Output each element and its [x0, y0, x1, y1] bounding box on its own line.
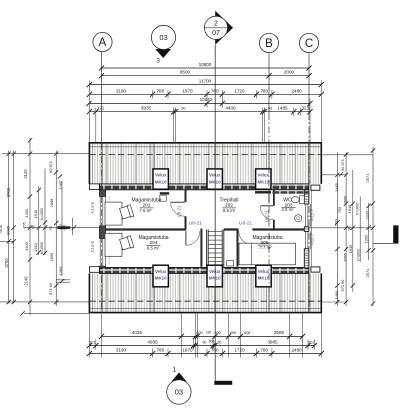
svg-text:455: 455: [22, 222, 27, 229]
grid line A: [101, 52, 103, 143]
svg-text:900: 900: [214, 331, 220, 335]
svg-text:h=1900: h=1900: [40, 242, 44, 254]
stair left rail: [207, 230, 209, 267]
svg-text:90: 90: [268, 105, 273, 110]
svg-text:2146: 2146: [24, 276, 29, 286]
svg-text:3190: 3190: [116, 348, 127, 353]
svg-text:1400: 1400: [24, 208, 29, 217]
bottom dim row A: [102, 335, 303, 337]
svg-text:h=1600: h=1600: [356, 203, 360, 215]
svg-text:10500: 10500: [199, 62, 212, 67]
svg-text:90: 90: [348, 227, 352, 231]
rafter lines top band: [92, 143, 310, 313]
svg-text:9085: 9085: [6, 225, 11, 235]
interior wall H1 (201-204 / mid): [106, 228, 187, 230]
purlin line top band: [89, 146, 321, 148]
section end bar bottom: [214, 381, 232, 385]
svg-text:Velux: Velux: [155, 269, 167, 274]
svg-text:1910: 1910: [348, 244, 353, 253]
svg-text:1200: 1200: [365, 210, 370, 219]
svg-text:780: 780: [260, 348, 268, 353]
WC door arc: [260, 206, 273, 220]
svg-text:1465: 1465: [334, 183, 339, 192]
svg-text:MK10: MK10: [155, 276, 167, 281]
dim row inner walls: [89, 111, 310, 113]
interior wall 201/202 vertical: [185, 190, 187, 229]
left dim verticals: [0, 138, 99, 315]
hall door right leaf+arc: [239, 244, 253, 246]
svg-text:690: 690: [230, 331, 236, 335]
right wall with window: [304, 190, 309, 204]
svg-text:90: 90: [203, 340, 207, 344]
right window A12-7 lower: [304, 231, 310, 248]
svg-text:3700: 3700: [4, 258, 9, 268]
dim row 10042: [89, 102, 310, 104]
svg-text:A14-9: A14-9: [90, 241, 95, 253]
svg-text:2: 2: [214, 21, 218, 28]
velux bottom band 3: [256, 265, 271, 287]
svg-text:1200: 1200: [364, 234, 369, 243]
svg-text:MK10: MK10: [155, 179, 167, 184]
room205 shelf: [227, 261, 234, 266]
left dim ticks: [7, 152, 11, 156]
svg-text:321: 321: [89, 340, 95, 344]
svg-text:1910: 1910: [347, 204, 352, 213]
dim row 10500: [102, 67, 310, 69]
svg-text:7.7 m²: 7.7 m²: [259, 245, 272, 250]
svg-text:780: 780: [156, 88, 164, 93]
svg-text:3985: 3985: [267, 339, 278, 344]
left window A14-9 lower: [99, 239, 105, 267]
door U8-21 room201 leaf: [171, 201, 185, 203]
svg-text:1970: 1970: [182, 88, 193, 93]
right dim verticals: [309, 147, 373, 306]
svg-text:90 971: 90 971: [48, 161, 53, 173]
grid line B: [268, 53, 270, 113]
svg-text:1910: 1910: [33, 209, 38, 218]
svg-text:10042: 10042: [200, 97, 213, 102]
stair treads: [208, 232, 222, 266]
grid line C: [308, 53, 310, 113]
grid bubble A: [93, 32, 112, 51]
svg-text:780: 780: [260, 88, 268, 93]
svg-text:A12-7: A12-7: [309, 209, 314, 221]
svg-text:B: B: [265, 38, 273, 50]
svg-text:1970: 1970: [182, 348, 193, 353]
svg-text:2585: 2585: [274, 330, 285, 335]
svg-text:U8-21: U8-21: [176, 205, 181, 218]
top band border: [89, 143, 321, 184]
left window A14-9 upper: [99, 197, 105, 226]
svg-text:1: 1: [173, 367, 177, 374]
svg-text:3700: 3700: [6, 187, 11, 197]
svg-text:600: 600: [244, 331, 250, 335]
velux top band 2: [207, 169, 222, 189]
room204 right wall: [200, 229, 202, 267]
roof band top (hatched): [89, 143, 321, 184]
svg-text:A: A: [99, 37, 107, 49]
svg-text:3190: 3190: [116, 88, 127, 93]
section line horizontal right + bar: [373, 242, 393, 244]
velux bottom band 1: [153, 265, 168, 287]
svg-text:800: 800: [63, 225, 67, 231]
bed room205: [239, 243, 296, 265]
heavy rafter lines: [102, 143, 309, 313]
dim row 11700: [89, 84, 321, 86]
WC door leaf: [260, 205, 273, 207]
grid bubble B: [259, 33, 278, 52]
knee wall bottom (blocks): [99, 268, 308, 274]
WC wall vertical: [273, 190, 275, 231]
svg-text:Velux: Velux: [258, 269, 270, 274]
svg-text:3: 3: [156, 58, 160, 65]
right dim ticks: [344, 152, 348, 156]
svg-text:1485: 1485: [277, 106, 288, 111]
room205 left wall: [237, 229, 239, 267]
svg-text:A12-7: A12-7: [309, 233, 314, 245]
velux top band 1: [153, 169, 168, 189]
svg-text:8500: 8500: [180, 70, 191, 75]
svg-text:Velux: Velux: [258, 173, 270, 178]
svg-text:h=1600: h=1600: [357, 249, 361, 261]
svg-text:11700: 11700: [199, 79, 212, 84]
svg-text:4935: 4935: [147, 339, 158, 344]
svg-text:1465: 1465: [334, 291, 339, 300]
svg-text:MK10: MK10: [257, 179, 269, 184]
svg-text:900: 900: [209, 340, 215, 344]
svg-text:1720: 1720: [234, 348, 245, 353]
svg-text:h=1800: h=1800: [40, 208, 44, 220]
witness lines bottom: [89, 313, 321, 358]
grid bubble C: [299, 33, 318, 52]
furring dashed line left: [108, 197, 110, 267]
drawing balloon 03 bottom: [172, 372, 187, 381]
svg-text:90: 90: [218, 340, 222, 344]
svg-text:2695: 2695: [49, 253, 54, 262]
dim row 8500/2000: [102, 75, 310, 77]
knee wall top (blocks): [99, 184, 308, 190]
svg-text:2571: 2571: [365, 268, 370, 278]
section marker 2/07 top: [215, 11, 233, 45]
svg-text:321: 321: [97, 106, 105, 111]
eave dashed line top: [89, 154, 321, 156]
svg-text:3935: 3935: [141, 106, 152, 111]
svg-text:500: 500: [334, 218, 339, 225]
svg-text:90 971: 90 971: [340, 159, 345, 171]
right wall outer trim: [311, 190, 313, 268]
svg-text:2665: 2665: [343, 253, 348, 262]
svg-text:A14-9: A14-9: [90, 202, 95, 214]
svg-text:1910: 1910: [33, 242, 38, 251]
svg-text:7.6 m²: 7.6 m²: [139, 208, 152, 213]
left wall with windows: [99, 190, 105, 197]
svg-text:780: 780: [156, 348, 164, 353]
svg-text:971 90: 971 90: [48, 282, 53, 295]
svg-text:4400: 4400: [225, 106, 236, 111]
hall door left arc: [185, 231, 187, 245]
svg-text:780: 780: [211, 88, 219, 93]
right window A12-7 upper: [304, 204, 310, 227]
WC sink: [295, 215, 302, 222]
svg-text:600: 600: [196, 331, 202, 335]
svg-text:2.8 m²: 2.8 m²: [282, 207, 295, 212]
bottom band border: [89, 273, 321, 312]
bed room204: [105, 233, 122, 256]
section line vertical: [214, 45, 216, 143]
svg-text:90: 90: [32, 225, 36, 229]
bed room201: [105, 202, 122, 225]
WC top closet bar: [255, 191, 271, 193]
eave dashed line bottom: [89, 300, 321, 302]
stair right rail: [222, 230, 224, 267]
bottom dim row C: [89, 353, 321, 355]
svg-text:321: 321: [308, 340, 314, 344]
svg-text:03: 03: [159, 33, 167, 42]
svg-text:321: 321: [301, 106, 309, 111]
svg-text:700: 700: [337, 206, 342, 213]
svg-text:971 90: 971 90: [340, 279, 345, 292]
roof corner blocks: [89, 184, 99, 190]
svg-text:C: C: [305, 38, 313, 50]
svg-text:07: 07: [212, 30, 220, 37]
svg-text:1265: 1265: [58, 181, 63, 190]
svg-text:2688: 2688: [49, 199, 54, 208]
svg-text:2146: 2146: [23, 169, 28, 179]
velux bottom band 2: [207, 265, 222, 287]
svg-text:Velux: Velux: [155, 173, 167, 178]
chair room204: [119, 236, 133, 251]
witness lines top: [89, 81, 321, 143]
svg-text:4035: 4035: [132, 330, 143, 335]
svg-text:03: 03: [175, 388, 183, 397]
purlin line bottom band: [89, 307, 321, 309]
bottom dim row B: [89, 345, 314, 347]
svg-text:90: 90: [49, 226, 53, 230]
svg-text:U8-21: U8-21: [239, 220, 252, 226]
svg-text:8.5 m²: 8.5 m²: [223, 208, 236, 213]
svg-text:2480: 2480: [291, 348, 302, 353]
door U8-21 room201 arc: [171, 202, 185, 216]
svg-text:U8-21: U8-21: [189, 220, 202, 226]
chair room201: [119, 205, 133, 220]
dim row window spacing: [89, 93, 321, 95]
svg-text:7400: 7400: [0, 224, 3, 234]
svg-text:1720: 1720: [234, 88, 245, 93]
svg-text:780: 780: [211, 348, 219, 353]
svg-text:2000: 2000: [284, 70, 295, 75]
roof band bottom (hatched): [89, 273, 321, 312]
wall 201 top closet: [160, 192, 169, 194]
svg-text:190: 190: [206, 330, 212, 334]
WC north low wall: [273, 191, 310, 194]
svg-text:9.5 m²: 9.5 m²: [147, 245, 160, 250]
svg-text:1400: 1400: [24, 241, 29, 250]
svg-text:2571: 2571: [365, 173, 370, 183]
svg-text:MK10: MK10: [258, 276, 270, 281]
WC toilet: [300, 196, 305, 204]
drawing balloon 03 top: [155, 49, 171, 58]
svg-text:90: 90: [181, 105, 186, 110]
svg-text:2480: 2480: [291, 88, 302, 93]
svg-text:1265: 1265: [58, 267, 63, 276]
svg-text:2688: 2688: [343, 196, 348, 205]
velux top band 3: [256, 169, 271, 189]
